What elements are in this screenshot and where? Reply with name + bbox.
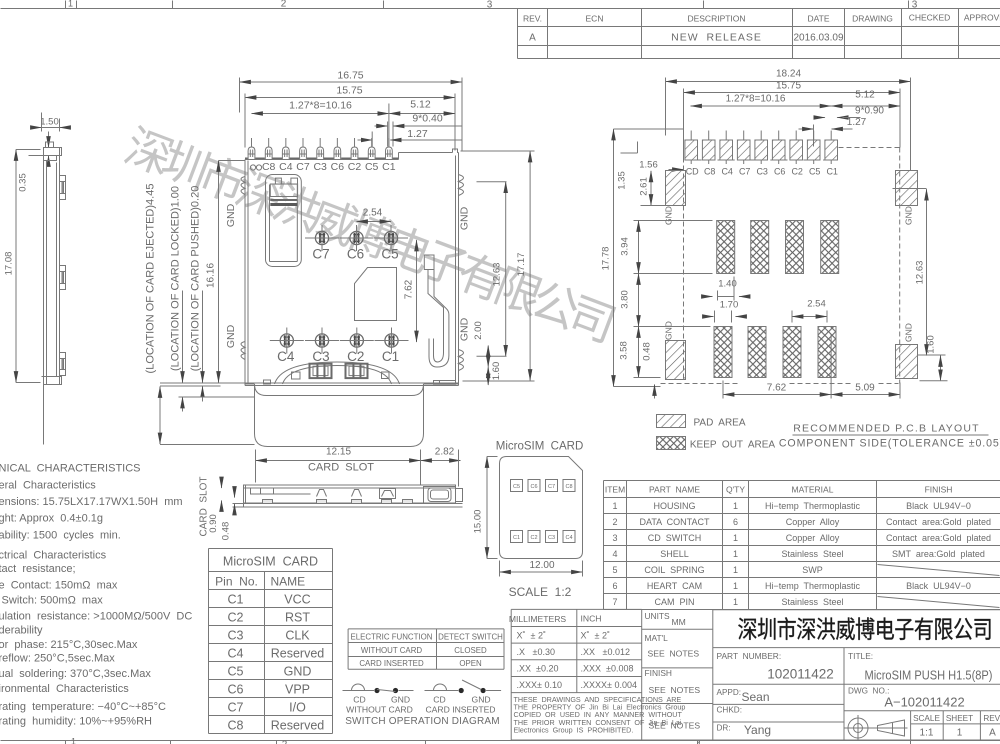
svg-text:rating temperature: −40°C~+85: rating temperature: −40°C~+85°C: [0, 701, 166, 713]
svg-text:.XXX± 0.10: .XXX± 0.10: [517, 680, 562, 690]
svg-text:CHECKED: CHECKED: [909, 13, 951, 23]
svg-text:GND: GND: [284, 665, 312, 679]
svg-text:PART NUMBER:: PART NUMBER:: [717, 651, 782, 661]
svg-text:e Contact: 150mΩ max: e Contact: 150mΩ max: [0, 580, 118, 592]
svg-text:1: 1: [733, 549, 738, 559]
svg-text:0.48: 0.48: [642, 342, 653, 361]
svg-text:MATERIAL: MATERIAL: [792, 485, 834, 495]
svg-text:C3: C3: [548, 535, 555, 541]
svg-text:Black UL94V−0: Black UL94V−0: [906, 581, 971, 591]
svg-text:GND: GND: [904, 206, 914, 225]
svg-text:DATE: DATE: [807, 14, 829, 24]
svg-text:A−102011422: A−102011422: [884, 695, 964, 710]
svg-text:ITEM: ITEM: [605, 485, 625, 495]
svg-text:C4: C4: [279, 161, 293, 173]
svg-text:ual soldering: 370°C,3sec.Max: ual soldering: 370°C,3sec.Max: [0, 668, 151, 680]
svg-text:(LOCATION OF CARD LOCKED)1.00: (LOCATION OF CARD LOCKED)1.00: [170, 186, 182, 371]
svg-text:WITHOUT CARD: WITHOUT CARD: [346, 705, 413, 715]
svg-text:I/O: I/O: [289, 701, 306, 715]
svg-text:GND: GND: [664, 206, 674, 225]
svg-text:3: 3: [612, 533, 617, 543]
svg-text:1.60: 1.60: [491, 362, 502, 381]
svg-text:X˚ ± 2˚: X˚ ± 2˚: [581, 631, 610, 641]
svg-text:CD: CD: [433, 695, 445, 705]
svg-text:1.27*8=10.16: 1.27*8=10.16: [726, 94, 786, 105]
svg-text:7.62: 7.62: [767, 383, 787, 394]
svg-text:6: 6: [612, 581, 617, 591]
svg-text:C6: C6: [347, 247, 364, 262]
svg-text:CD: CD: [353, 695, 365, 705]
svg-text:APPROVED: APPROVED: [964, 13, 1000, 23]
svg-text:CARD INSERTED: CARD INSERTED: [359, 659, 424, 668]
svg-text:Copper Alloy: Copper Alloy: [786, 533, 840, 543]
svg-text:C8: C8: [565, 484, 572, 490]
svg-text:SCALE 1:2: SCALE 1:2: [509, 585, 572, 599]
svg-text:C1: C1: [382, 161, 396, 173]
svg-text:SWP: SWP: [802, 565, 823, 575]
svg-text:SEE NOTES: SEE NOTES: [649, 685, 701, 695]
svg-text:HEART CAM: HEART CAM: [647, 581, 702, 591]
svg-text:SHEET: SHEET: [946, 714, 973, 723]
svg-text:0.90: 0.90: [208, 514, 219, 533]
svg-text:1.56: 1.56: [639, 160, 658, 171]
svg-text:9*0.40: 9*0.40: [412, 113, 443, 125]
svg-text:C6: C6: [331, 161, 345, 173]
svg-text:1: 1: [733, 533, 738, 543]
svg-text:ulation resistance: >1000MΩ/5: ulation resistance: >1000MΩ/500V DC: [0, 611, 192, 623]
svg-text:2016.03.09: 2016.03.09: [793, 33, 843, 44]
svg-text:RECOMMENDED P.C.B LAYOUT: RECOMMENDED P.C.B LAYOUT: [793, 423, 980, 435]
svg-text:3: 3: [487, 0, 493, 11]
svg-text:9*0.90: 9*0.90: [855, 106, 884, 117]
svg-text:C4: C4: [565, 535, 572, 541]
svg-text:GND: GND: [904, 323, 914, 342]
svg-text:C2: C2: [347, 349, 364, 364]
svg-text:INCH: INCH: [581, 614, 602, 624]
svg-text:NAME: NAME: [271, 575, 306, 589]
svg-text:12.15: 12.15: [326, 447, 351, 458]
svg-text:APPD:: APPD:: [717, 688, 742, 697]
svg-text:C5: C5: [381, 247, 398, 262]
svg-text:DRAWING: DRAWING: [852, 14, 893, 24]
svg-text:Sean: Sean: [741, 690, 769, 704]
svg-text:rating humidity: 10%~+95%RH: rating humidity: 10%~+95%RH: [0, 716, 152, 728]
svg-text:Hi−temp Thermoplastic: Hi−temp Thermoplastic: [765, 501, 861, 511]
svg-text:derability: derability: [0, 625, 43, 637]
svg-text:C3: C3: [756, 167, 768, 177]
svg-text:.XXX ±0.008: .XXX ±0.008: [581, 664, 634, 674]
svg-text:2: 2: [282, 740, 288, 744]
svg-text:GND: GND: [664, 321, 674, 340]
svg-text:C6: C6: [774, 167, 786, 177]
svg-text:A: A: [529, 33, 536, 44]
svg-text:GND: GND: [391, 695, 410, 705]
svg-text:SWITCH OPERATION DIAGRAM: SWITCH OPERATION DIAGRAM: [345, 716, 500, 727]
svg-text:ctrical Characteristics: ctrical Characteristics: [0, 550, 107, 562]
svg-text:SMT area:Gold plated: SMT area:Gold plated: [892, 549, 985, 559]
svg-text:2.82: 2.82: [435, 447, 455, 458]
svg-text:CAM PIN: CAM PIN: [654, 597, 694, 607]
svg-text:DETECT SWITCH: DETECT SWITCH: [438, 633, 503, 642]
svg-text:102011422: 102011422: [767, 667, 834, 682]
svg-text:2.54: 2.54: [363, 208, 383, 219]
svg-text:7: 7: [612, 597, 617, 607]
svg-text:Yang: Yang: [744, 723, 771, 737]
svg-text:Hi−temp Thermoplastic: Hi−temp Thermoplastic: [765, 581, 861, 591]
svg-text:A: A: [989, 728, 996, 739]
svg-text:C8: C8: [262, 161, 276, 173]
svg-text:Pin No.: Pin No.: [215, 575, 258, 589]
svg-text:16.16: 16.16: [206, 263, 217, 288]
svg-text:MAT'L: MAT'L: [645, 633, 669, 643]
svg-text:0.48: 0.48: [221, 522, 232, 541]
svg-text:Q'TY: Q'TY: [726, 485, 745, 495]
svg-text:2: 2: [281, 0, 287, 10]
svg-text:CHKD:: CHKD:: [717, 706, 742, 715]
svg-text:C2: C2: [791, 167, 803, 177]
svg-text:ability: 1500 cycles min.: ability: 1500 cycles min.: [0, 530, 121, 542]
svg-text:2.54: 2.54: [807, 299, 826, 310]
svg-text:RST: RST: [285, 611, 310, 625]
svg-text:Reserved: Reserved: [271, 719, 325, 733]
svg-text:DESCRIPTION: DESCRIPTION: [687, 14, 745, 24]
svg-text:PART NAME: PART NAME: [649, 485, 700, 495]
svg-text:1.27*8=10.16: 1.27*8=10.16: [289, 100, 352, 112]
svg-text:C8: C8: [228, 719, 244, 733]
svg-text:SEE NOTES: SEE NOTES: [649, 721, 701, 731]
svg-text:C6: C6: [228, 683, 244, 697]
svg-text:5.09: 5.09: [855, 383, 875, 394]
svg-text:0.35: 0.35: [18, 173, 29, 192]
svg-text:MILLIMETERS: MILLIMETERS: [509, 614, 567, 624]
svg-text:1.50: 1.50: [40, 117, 59, 128]
svg-text:SCALE: SCALE: [913, 714, 940, 723]
svg-text:Switch: 500mΩ max: Switch: 500mΩ max: [0, 595, 103, 607]
svg-text:KEEP OUT AREA: KEEP OUT AREA: [690, 440, 776, 451]
svg-text:NICAL CHARACTERISTICS: NICAL CHARACTERISTICS: [0, 463, 141, 475]
svg-text:1.60: 1.60: [926, 335, 937, 354]
svg-text:1: 1: [733, 565, 738, 575]
svg-text:17.08: 17.08: [4, 252, 15, 276]
svg-text:18.24: 18.24: [776, 69, 801, 80]
svg-text:C4: C4: [721, 167, 733, 177]
svg-text:C1: C1: [228, 593, 244, 607]
svg-text:Black UL94V−0: Black UL94V−0: [906, 501, 971, 511]
svg-text:FINISH: FINISH: [645, 668, 672, 678]
svg-text:C7: C7: [296, 161, 310, 173]
svg-text:FINISH: FINISH: [925, 485, 953, 495]
svg-text:GND: GND: [225, 324, 237, 348]
svg-text:MM: MM: [672, 617, 686, 627]
svg-text:X˚ ± 2˚: X˚ ± 2˚: [517, 631, 546, 641]
svg-text:15.00: 15.00: [473, 510, 484, 534]
svg-text:C1: C1: [382, 349, 399, 364]
svg-text:5: 5: [612, 565, 617, 575]
svg-text:5.12: 5.12: [855, 90, 875, 101]
svg-text:C8: C8: [704, 167, 716, 177]
svg-text:VCC: VCC: [284, 593, 310, 607]
svg-text:GND: GND: [459, 206, 471, 230]
svg-text:16.75: 16.75: [337, 70, 363, 82]
svg-text:ECN: ECN: [586, 14, 604, 24]
svg-text:C7: C7: [312, 247, 329, 262]
svg-text:tact resistance;: tact resistance;: [0, 563, 76, 575]
svg-text:12.00: 12.00: [529, 560, 554, 571]
svg-text:12.63: 12.63: [492, 263, 503, 287]
svg-text:(LOCATION OF CARD EJECTED)4.45: (LOCATION OF CARD EJECTED)4.45: [145, 184, 157, 374]
svg-text:C2: C2: [228, 611, 244, 625]
svg-text:15.75: 15.75: [336, 85, 362, 97]
svg-text:MicroSIM PUSH H1.5(8P): MicroSIM PUSH H1.5(8P): [865, 668, 993, 683]
svg-text:1:1: 1:1: [920, 728, 934, 739]
svg-text:or phase: 215°C,30sec.Max: or phase: 215°C,30sec.Max: [0, 639, 138, 651]
svg-text:C5: C5: [365, 161, 379, 173]
svg-text:1: 1: [71, 737, 76, 744]
svg-text:CARD INSERTED: CARD INSERTED: [425, 705, 495, 715]
svg-text:C7: C7: [548, 484, 555, 490]
svg-text:DATA CONTACT: DATA CONTACT: [639, 517, 710, 527]
svg-text:C5: C5: [228, 665, 244, 679]
svg-text:.X ±0.30: .X ±0.30: [517, 647, 555, 657]
svg-text:C5: C5: [809, 167, 821, 177]
svg-text:1: 1: [957, 728, 963, 739]
svg-text:COMPONENT SIDE(TOLERANCE ±0.05: COMPONENT SIDE(TOLERANCE ±0.05): [779, 438, 1000, 450]
svg-text:eral Characteristics: eral Characteristics: [0, 480, 96, 492]
svg-text:1: 1: [733, 501, 738, 511]
svg-text:4: 4: [612, 549, 617, 559]
svg-text:.XX ±0.20: .XX ±0.20: [517, 664, 559, 674]
svg-text:GND: GND: [472, 695, 491, 705]
svg-text:3.80: 3.80: [620, 290, 631, 309]
svg-text:Reserved: Reserved: [271, 647, 325, 661]
svg-text:3.58: 3.58: [619, 341, 630, 360]
svg-text:C7: C7: [739, 167, 751, 177]
svg-text:1.70: 1.70: [720, 300, 739, 311]
svg-text:1: 1: [733, 597, 738, 607]
svg-text:Contact area:Gold plated: Contact area:Gold plated: [886, 533, 991, 543]
svg-text:C3: C3: [228, 629, 244, 643]
svg-text:17.17: 17.17: [516, 253, 527, 277]
svg-text:2.00: 2.00: [473, 321, 484, 340]
svg-text:C4: C4: [228, 647, 244, 661]
svg-text:1: 1: [733, 581, 738, 591]
svg-text:VPP: VPP: [285, 683, 310, 697]
svg-text:5.12: 5.12: [410, 99, 431, 111]
svg-text:GND: GND: [225, 203, 237, 227]
svg-text:ironmental Characteristics: ironmental Characteristics: [0, 683, 129, 695]
svg-text:UNITS: UNITS: [645, 611, 671, 621]
svg-text:.XXXX± 0.004: .XXXX± 0.004: [581, 680, 637, 690]
svg-text:17.78: 17.78: [601, 247, 612, 271]
svg-text:REV.: REV.: [983, 714, 1000, 723]
svg-text:2.61: 2.61: [639, 177, 650, 196]
svg-text:Electronics Group IS PROHIB: Electronics Group IS PROHIBITED.: [514, 725, 634, 734]
svg-text:Contact area:Gold plated: Contact area:Gold plated: [886, 517, 991, 527]
svg-text:12.63: 12.63: [915, 261, 926, 285]
svg-text:15.75: 15.75: [776, 81, 801, 92]
svg-text:C5: C5: [513, 484, 520, 490]
svg-text:HOUSING: HOUSING: [653, 501, 695, 511]
svg-text:2: 2: [612, 517, 617, 527]
svg-text:C7: C7: [228, 701, 244, 715]
svg-text:PAD AREA: PAD AREA: [693, 418, 745, 429]
svg-text:C2: C2: [348, 161, 362, 173]
svg-text:1.35: 1.35: [617, 171, 628, 190]
svg-text:1: 1: [68, 0, 73, 9]
svg-text:1.27: 1.27: [847, 117, 867, 128]
svg-text:C1: C1: [826, 167, 838, 177]
svg-text:NEW RELEASE: NEW RELEASE: [671, 32, 762, 44]
svg-text:Stainless Steel: Stainless Steel: [781, 597, 843, 607]
svg-text:3.94: 3.94: [620, 237, 631, 256]
svg-text:TITLE:: TITLE:: [848, 651, 873, 661]
svg-text:C2: C2: [530, 535, 537, 541]
svg-text:1: 1: [612, 501, 617, 511]
svg-text:MicroSIM CARD: MicroSIM CARD: [223, 555, 318, 569]
svg-text:WITHOUT CARD: WITHOUT CARD: [361, 646, 423, 655]
svg-text:COIL SPRING: COIL SPRING: [644, 565, 704, 575]
svg-text:C6: C6: [530, 484, 537, 490]
svg-text:DWG NO.:: DWG NO.:: [848, 687, 889, 696]
svg-text:SEE NOTES: SEE NOTES: [648, 649, 700, 659]
svg-text:DR:: DR:: [717, 724, 731, 733]
svg-text:reflow: 250°C,5sec.Max: reflow: 250°C,5sec.Max: [0, 653, 115, 665]
svg-text:GND: GND: [459, 317, 471, 341]
svg-text:Stainless Steel: Stainless Steel: [781, 549, 843, 559]
svg-text:.XX ±0.012: .XX ±0.012: [581, 647, 630, 657]
svg-text:6: 6: [733, 517, 738, 527]
svg-text:OPEN: OPEN: [459, 659, 482, 668]
svg-text:REV.: REV.: [523, 14, 542, 24]
svg-text:SHELL: SHELL: [660, 549, 689, 559]
svg-text:MicroSIM CARD: MicroSIM CARD: [496, 441, 584, 453]
svg-text:Copper Alloy: Copper Alloy: [786, 517, 840, 527]
svg-text:CD SWITCH: CD SWITCH: [648, 533, 702, 543]
svg-text:1.27: 1.27: [407, 128, 428, 140]
svg-text:CD: CD: [686, 167, 699, 177]
svg-text:3: 3: [912, 0, 918, 11]
svg-text:C3: C3: [313, 161, 327, 173]
svg-text:ELECTRIC FUNCTION: ELECTRIC FUNCTION: [351, 633, 433, 642]
svg-text:CARD SLOT: CARD SLOT: [308, 462, 374, 474]
svg-text:C1: C1: [513, 535, 520, 541]
svg-text:ensions: 15.75LX17.17WX1.50H: ensions: 15.75LX17.17WX1.50H mm: [0, 496, 183, 508]
svg-text:7.62: 7.62: [404, 279, 415, 299]
svg-text:C4: C4: [277, 349, 295, 364]
svg-text:CLOSED: CLOSED: [454, 646, 487, 655]
svg-text:(LOCATION OF CARD PUSHED)0.20: (LOCATION OF CARD PUSHED)0.20: [190, 186, 202, 372]
svg-text:ght: Approx 0.4±0.1g: ght: Approx 0.4±0.1g: [0, 513, 103, 525]
svg-text:CLK: CLK: [285, 629, 310, 643]
